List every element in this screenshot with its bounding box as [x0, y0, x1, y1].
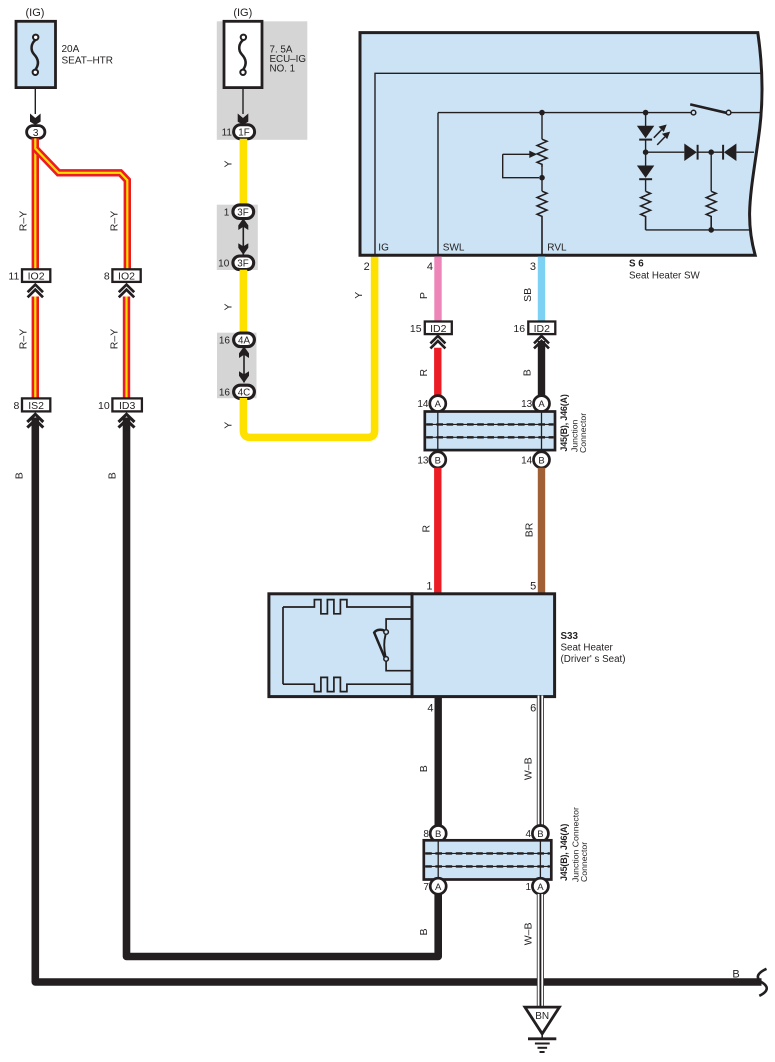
wire R-Y branch from node 3 to connector IO2 pin 8	[35, 149, 127, 270]
node 4A oval with pin 16	[219, 333, 255, 347]
svg-text:10: 10	[98, 400, 110, 412]
wire label BR	[524, 522, 536, 537]
svg-text:13: 13	[521, 399, 533, 410]
pin 2 number	[364, 261, 370, 273]
wire label Y upper	[223, 160, 235, 167]
terminal B pin 8 circle	[423, 826, 446, 842]
svg-text:B: B	[418, 928, 430, 935]
connector ID3 pin 10 box	[98, 398, 142, 412]
terminal B pin 14 circle	[521, 452, 549, 468]
svg-text:R–Y: R–Y	[108, 329, 120, 349]
svg-text:J45(B), J46(A): J45(B), J46(A)	[559, 394, 569, 451]
wire B from ID2 to junction connector A13	[538, 341, 545, 397]
svg-text:10: 10	[218, 259, 230, 270]
inner border line and IG pin wire	[375, 73, 761, 254]
wire label Y middle	[223, 303, 235, 310]
svg-text:S 6: S 6	[629, 258, 644, 269]
svg-text:IG: IG	[378, 243, 389, 254]
solid division lines in lower junction connector	[425, 853, 550, 866]
wire label R upper	[418, 368, 430, 376]
svg-text:Connector: Connector	[579, 842, 589, 882]
wire BR from junction connector B14 to S33 pin 5	[538, 468, 545, 595]
wire Y from 4C across to seat heater SW pin 2	[243, 257, 374, 438]
wire P from S6 pin 4 to ID2	[434, 257, 441, 322]
svg-text:16: 16	[219, 336, 231, 347]
wire label SB	[522, 288, 534, 302]
wire Y from 3F to 4A	[240, 270, 248, 334]
dashed bus lines in lower junction connector	[425, 853, 550, 866]
svg-text:J45(B), J46(A): J45(B), J46(A)	[559, 824, 569, 881]
wire R-Y straight from node 3 to connector IO2 pin 11	[32, 138, 39, 269]
svg-text:Y: Y	[223, 303, 235, 310]
wire D2 to right edge	[736, 151, 754, 153]
svg-text:B: B	[435, 455, 441, 466]
LED2 indicator	[637, 166, 654, 180]
double arrow link between 3F ovals	[238, 218, 248, 254]
wire label B on pin 4 wire	[418, 765, 430, 772]
wire SB from S6 pin 3 to ID2	[538, 257, 545, 322]
svg-text:R–Y: R–Y	[108, 211, 120, 231]
svg-text:R: R	[418, 368, 430, 376]
gray block around 4A-4C junction	[217, 333, 257, 399]
svg-text:3F: 3F	[237, 208, 248, 219]
svg-text:R–Y: R–Y	[17, 329, 29, 349]
svg-text:1: 1	[526, 882, 532, 893]
svg-text:Seat Heater SW: Seat Heater SW	[629, 271, 701, 282]
wire label Y right riser	[353, 292, 365, 299]
svg-text:BR: BR	[524, 522, 536, 537]
pin 3 number	[530, 261, 536, 273]
diode D1	[684, 144, 697, 162]
internal supply wire to switch	[438, 112, 691, 114]
svg-text:4C: 4C	[238, 387, 251, 398]
svg-text:SWL: SWL	[443, 243, 465, 254]
svg-text:Y: Y	[353, 292, 365, 299]
wire label B on IS2 wire	[14, 472, 26, 479]
arrowhead into node 1F	[238, 114, 249, 126]
wire R-Y from IO2 8 to ID3 10	[123, 297, 130, 399]
ground symbol bars	[528, 1033, 556, 1052]
svg-text:3: 3	[530, 261, 536, 273]
svg-text:IS2: IS2	[28, 400, 44, 412]
fuse F1 20A SEAT-HTR body	[16, 21, 56, 87]
bottom internal bus wire	[646, 227, 751, 233]
seat heater switch S6 body with torn right edge	[360, 33, 762, 256]
designator S33 Seat Heater	[561, 631, 626, 665]
wire R from junction connector B13 to S33 pin 1	[434, 468, 441, 595]
svg-text:NO. 1: NO. 1	[270, 64, 296, 75]
pin 6 number below S33	[530, 703, 536, 715]
wire label R-Y lower left	[17, 329, 29, 349]
chevron under ID2 16	[534, 336, 549, 348]
resistor R4 under diode node	[706, 152, 716, 230]
node 3F lower oval with pin 10	[218, 256, 254, 270]
wire label B on lower pin 7 riser	[418, 928, 430, 935]
svg-text:6: 6	[530, 703, 536, 715]
node 3F upper oval with pin 1	[224, 205, 254, 219]
svg-text:1: 1	[426, 581, 432, 593]
svg-text:B: B	[732, 969, 739, 981]
potentiometer VR1 resistor element	[537, 139, 547, 167]
svg-text:8: 8	[104, 271, 110, 283]
svg-text:8: 8	[13, 400, 19, 412]
chevron under IO2 pin 11	[28, 285, 43, 298]
dashed bus lines in upper junction connector	[426, 424, 553, 437]
designator S6 Seat Heater SW	[629, 258, 701, 281]
wire pass-through lines in lower junction connector	[438, 840, 540, 879]
svg-text:4: 4	[427, 703, 433, 715]
wire R from ID2 to junction connector A14	[434, 348, 441, 397]
junction connector J45/J46 lower body	[424, 840, 552, 879]
LED2 lower lead	[645, 179, 647, 191]
svg-text:BN: BN	[535, 1011, 549, 1022]
connector IO2 pin 8 box	[104, 269, 141, 282]
heater element lower run with crenellation	[283, 677, 412, 691]
wire label W-B upper	[523, 757, 535, 780]
svg-text:7: 7	[423, 882, 429, 893]
potentiometer VR1 wiper arrow and loop	[503, 151, 539, 178]
svg-text:14: 14	[417, 399, 429, 410]
S33 seat heater right body	[412, 594, 555, 697]
fuse F2 element symbol	[239, 35, 246, 75]
LED1 indicator	[637, 126, 654, 140]
wire B from S33 pin 4 to lower junction connector B8	[435, 696, 442, 828]
potentiometer lower lead and node dot	[539, 167, 545, 191]
value label 7.5A ECU-IG NO.1	[270, 44, 306, 74]
svg-text:1F: 1F	[238, 128, 249, 139]
wire label Y lower left	[223, 422, 235, 429]
heater element left side	[282, 607, 284, 684]
wire label B at right end of bottom bus	[732, 969, 739, 981]
svg-text:B: B	[418, 765, 430, 772]
svg-text:Connector: Connector	[578, 413, 588, 453]
junction connector J45/J46 upper body	[425, 412, 555, 451]
wire W-B from S33 pin 6 to lower junction connector B4	[537, 696, 544, 828]
S33 seat heater left body	[269, 594, 412, 697]
svg-text:IO2: IO2	[28, 271, 45, 283]
ground point BN triangle	[525, 1007, 560, 1034]
diode D2	[723, 144, 736, 162]
chevron under ID3	[119, 414, 135, 427]
svg-text:ID2: ID2	[534, 323, 551, 335]
svg-text:2: 2	[364, 261, 370, 273]
connector ID2 pin 16 box	[513, 322, 555, 335]
gray block around 3F junction	[217, 205, 258, 270]
svg-text:4: 4	[526, 829, 532, 840]
designator J45(B), J46(A) lower	[559, 824, 569, 881]
wire B thick from ID3 down, east, and up to junction connector pin 7	[127, 418, 439, 957]
pin name IG	[378, 243, 389, 254]
svg-text:15: 15	[410, 323, 422, 335]
wire pass-through lines in upper junction connector	[438, 412, 542, 451]
svg-text:8: 8	[423, 829, 429, 840]
wire label R-Y upper left	[17, 211, 29, 231]
svg-text:4: 4	[427, 261, 433, 273]
svg-text:3: 3	[33, 128, 39, 139]
svg-text:3F: 3F	[237, 259, 248, 270]
svg-text:Y: Y	[223, 422, 235, 429]
svg-text:A: A	[538, 399, 545, 410]
thermal switch leads	[386, 619, 411, 671]
node 4C oval with pin 16	[219, 385, 255, 398]
wire R-Y from IO2 11 to IS2 8	[32, 297, 39, 399]
terminal B pin 13 circle	[417, 452, 445, 468]
wire from LED branch to diode D1	[646, 151, 685, 153]
svg-text:B: B	[537, 829, 543, 840]
wire from fuse F1 to node 3	[34, 88, 36, 114]
chevron under ID2 15	[430, 336, 445, 348]
svg-text:B: B	[538, 455, 544, 466]
wire label W-B lower	[523, 923, 535, 946]
pin 4 number below S33	[427, 703, 433, 715]
svg-text:A: A	[435, 882, 442, 893]
svg-text:(IG): (IG)	[26, 7, 45, 19]
svg-text:4A: 4A	[238, 336, 250, 347]
svg-text:Y: Y	[223, 160, 235, 167]
chevron under IS2	[27, 414, 43, 427]
pin 1 number above S33	[426, 581, 432, 593]
fuse F2 7.5A ECU-IG NO.1 body	[224, 21, 262, 87]
wire label B upper right	[522, 369, 534, 376]
svg-text:ID2: ID2	[430, 323, 447, 335]
svg-text:IO2: IO2	[118, 271, 135, 283]
wire label R-Y upper right	[108, 211, 120, 231]
svg-text:(Driver' s Seat): (Driver' s Seat)	[561, 654, 626, 665]
chevron under IO2 pin 8	[119, 285, 134, 298]
svg-text:1: 1	[224, 208, 230, 219]
SWL pin wire inside box	[437, 113, 439, 255]
svg-text:20A: 20A	[62, 44, 80, 55]
svg-text:14: 14	[521, 455, 533, 466]
resistor R2 on RVL branch	[537, 191, 547, 254]
thermal switch contacts	[384, 630, 389, 662]
svg-text:B: B	[106, 472, 118, 479]
svg-text:B: B	[435, 829, 441, 840]
svg-text:Seat Heater: Seat Heater	[561, 642, 614, 653]
wire from fuse F2 to node 1F	[242, 88, 244, 114]
svg-text:P: P	[418, 292, 430, 299]
wire label R-Y lower right	[108, 329, 120, 349]
svg-text:ID3: ID3	[119, 400, 136, 412]
wire W-B from lower junction connector A1 to ground	[537, 894, 544, 1009]
arrowhead into node 3	[30, 114, 41, 126]
wire D1 to D2 with node	[698, 149, 724, 155]
svg-text:W–B: W–B	[523, 757, 535, 780]
wire B thick from IS2 down and across bottom bus to right edge	[35, 418, 761, 983]
double arrow link between 4A and 4C	[239, 346, 249, 382]
label (IG) for fuse F1	[26, 7, 45, 19]
wire from switch to right edge	[731, 112, 762, 114]
pin 5 number above S33	[530, 581, 536, 593]
LED1 light emission arrows	[654, 125, 670, 145]
svg-text:A: A	[537, 882, 544, 893]
svg-text:11: 11	[8, 271, 19, 283]
terminal A pin 14 circle	[417, 396, 445, 412]
svg-text:RVL: RVL	[547, 243, 567, 254]
svg-text:5: 5	[530, 581, 536, 593]
svg-text:16: 16	[219, 387, 231, 398]
terminal A pin 13 circle	[521, 396, 549, 412]
connector ID2 pin 15 box	[410, 322, 452, 335]
node 1F oval with pin 11	[222, 125, 255, 139]
value label 20A SEAT-HTR	[62, 44, 114, 67]
svg-text:13: 13	[417, 455, 429, 466]
svg-text:(IG): (IG)	[233, 7, 252, 19]
node dot at LED branch	[643, 110, 649, 116]
svg-text:B: B	[14, 472, 26, 479]
svg-text:A: A	[435, 399, 442, 410]
wire Y from 1F to 3F	[240, 139, 248, 206]
designator Junction Connector upper	[569, 413, 588, 453]
designator J45(B), J46(A) upper	[559, 394, 569, 451]
switch SW1 contacts and lever	[690, 104, 731, 114]
connector IS2 pin 8 box	[13, 398, 50, 412]
node 3 oval	[27, 126, 45, 139]
lead between LED1 and LED2 with branch node	[643, 140, 649, 166]
terminal A pin 7 circle	[423, 878, 446, 894]
wire label R lower	[420, 524, 432, 532]
svg-text:SB: SB	[522, 288, 534, 302]
connector IO2 pin 11 box	[8, 269, 50, 282]
label (IG) for fuse F2	[233, 7, 252, 19]
terminal B pin 4 circle	[526, 826, 549, 842]
terminal A pin 1 circle	[526, 878, 549, 894]
heater element upper run with crenellation	[283, 600, 412, 614]
solid division lines in upper junction connector	[426, 424, 553, 437]
fuse F1 element symbol	[32, 35, 39, 75]
svg-text:W–B: W–B	[523, 923, 535, 946]
pin 4 number	[427, 261, 433, 273]
svg-text:R: R	[420, 524, 432, 532]
node dot at SWL branch	[539, 110, 545, 116]
wire label P	[418, 292, 430, 299]
pin name RVL	[547, 243, 567, 254]
svg-text:SEAT–HTR: SEAT–HTR	[62, 56, 114, 67]
svg-text:S33: S33	[561, 631, 579, 642]
continuation squiggle at right end of bus	[758, 969, 767, 996]
svg-text:B: B	[522, 369, 534, 376]
resistor R3 under LEDs	[641, 191, 651, 230]
pin name SWL	[443, 243, 465, 254]
thermal switch lever	[374, 630, 386, 659]
svg-text:R–Y: R–Y	[17, 211, 29, 231]
svg-text:16: 16	[513, 323, 525, 335]
potentiometer VR1 top lead	[541, 113, 543, 140]
wire label B on ID3 wire	[106, 472, 118, 479]
designator Junction Connector lower	[570, 807, 589, 882]
svg-text:11: 11	[222, 128, 233, 139]
LED column lead	[645, 113, 647, 126]
gray block around fuse F2	[217, 21, 307, 140]
